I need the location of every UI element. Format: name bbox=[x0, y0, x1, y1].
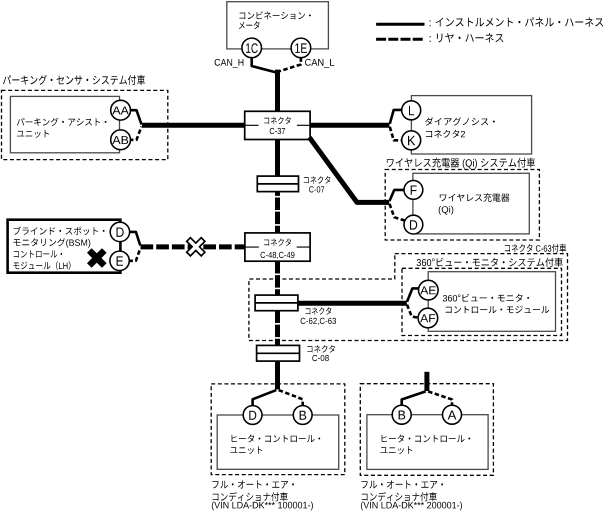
label: wireless charger (Qi) system equipped bbox=[387, 158, 535, 169]
wire: spine solid (C-08 to heater junction) bbox=[275, 361, 280, 390]
wire: pin 1E dashed branch (CAN_L) bbox=[279, 57, 301, 71]
heater control unit box (VIN 200001-) bbox=[367, 415, 488, 470]
heater control unit (VIN 200001-) dashed box bbox=[360, 384, 493, 476]
wire: spine dashed (C-62,C-63 to C-08) bbox=[275, 311, 280, 346]
label: connector C-63 equipped bbox=[505, 244, 566, 253]
pin A (heater control unit R) bbox=[443, 405, 462, 424]
360 view monitor control module box bbox=[428, 272, 555, 332]
wire: parking junction to C-37 left bbox=[142, 123, 245, 128]
connector C-63 equipped dashed region (L-shape) bbox=[249, 254, 568, 341]
caption: full auto air conditioner equipped (VIN 100001-) bbox=[212, 480, 294, 488]
wire: pin D (Qi) dashed branch bbox=[390, 204, 406, 221]
wireless charger (Qi) box bbox=[413, 173, 529, 234]
wire: pin K dashed branch bbox=[390, 127, 402, 141]
wire: pin 1C solid branch (CAN_H) bbox=[252, 57, 276, 72]
heater control unit (VIN 100001-) dashed box bbox=[211, 384, 345, 475]
wire: pin E (BSM) dashed branch bbox=[128, 248, 140, 260]
pin B (heater control unit L) bbox=[293, 406, 312, 425]
wire: heater-R pin B solid branch bbox=[402, 391, 426, 405]
wire: pin L solid branch bbox=[390, 110, 402, 124]
combination meter box U: combination meter bbox=[227, 2, 329, 49]
wire: pin AE solid branch bbox=[407, 288, 419, 301]
pin D (BSM module) bbox=[110, 222, 129, 241]
pin K (diagnosis connector 2) bbox=[402, 131, 421, 150]
parking assist unit box bbox=[10, 96, 119, 152]
wire: C-37 diagonal down to Qi junction bbox=[309, 137, 389, 202]
wire: pin D (BSM) solid branch bbox=[130, 232, 140, 246]
wire: BSM junction dashed to C-48,C-49 bbox=[141, 244, 245, 249]
pin AA (parking assist unit) bbox=[111, 100, 131, 120]
wire: heater-L pin B dashed branch bbox=[279, 390, 303, 406]
X mark on BSM wire (no connection, outlined) bbox=[187, 238, 205, 256]
pin 1E (combination meter, CAN_L) bbox=[291, 38, 311, 58]
pin D (wireless charger) bbox=[404, 215, 423, 234]
wire: pin AA solid branch bbox=[130, 110, 142, 124]
pin E (BSM module) bbox=[110, 251, 129, 270]
connector C-07 symbol bbox=[257, 176, 298, 192]
wire: pin AF dashed branch bbox=[407, 305, 419, 318]
label: 360 view monitor system equipped bbox=[417, 258, 563, 267]
connector C-37 box bbox=[245, 111, 310, 139]
wire: C-62,C-63 to AE/AF junction bbox=[298, 301, 407, 306]
blind spot monitoring (BSM) control module (LH) box bbox=[8, 220, 121, 273]
pin D (heater control unit L) bbox=[243, 406, 262, 425]
wire: spine dashed (C-48,C-49 to C-62,C-63) bbox=[275, 261, 280, 295]
wire: spine dashed (C-07 to C-48,C-49) bbox=[275, 191, 280, 233]
X mark inside BSM box (no connection) bbox=[87, 248, 107, 268]
parking sensor system dashed box bbox=[2, 90, 168, 159]
caption: full auto air conditioner equipped (VIN 200001-) bbox=[362, 480, 444, 488]
pin B (heater control unit R) bbox=[392, 405, 411, 424]
wire: C-37 right to L/K junction bbox=[310, 123, 389, 128]
wire: spine solid (C-37 to C-07) bbox=[275, 139, 280, 176]
legend: instrument panel harness (solid line) bbox=[376, 23, 424, 26]
pin F (wireless charger) bbox=[404, 181, 423, 200]
pin 1C (combination meter, CAN_H) bbox=[242, 38, 262, 58]
heater control unit box (VIN 100001-) bbox=[217, 415, 339, 469]
pin AF (360 view monitor module) bbox=[418, 308, 438, 328]
wireless charger (Qi) system dashed box bbox=[385, 170, 539, 241]
pin L (diagnosis connector 2) bbox=[402, 101, 421, 120]
pin AB (parking assist unit) bbox=[111, 130, 131, 150]
net label CAN_H bbox=[215, 59, 244, 68]
wire: pin F solid branch bbox=[390, 190, 405, 201]
wire: stub above right heater junction bbox=[424, 372, 429, 391]
wire: heater-R pin A dashed branch bbox=[428, 391, 452, 405]
connector C-62,C-63 symbol bbox=[255, 295, 298, 311]
connector C-48,C-49 box bbox=[245, 233, 310, 261]
label: parking sensor system equipped bbox=[3, 75, 145, 85]
360 view monitor system dashed box bbox=[402, 268, 562, 335]
wire: heater-L pin D solid branch bbox=[253, 390, 277, 406]
wire: main spine solid (CAN junction to C-37) bbox=[275, 70, 280, 112]
connector C-08 symbol bbox=[257, 345, 300, 361]
net label CAN_L bbox=[305, 59, 334, 68]
wire: pin AB dashed branch bbox=[129, 127, 142, 140]
diagnosis connector 2 box bbox=[411, 96, 531, 154]
legend: rear harness (dashed line) bbox=[376, 38, 424, 41]
pin AE (360 view monitor module) bbox=[419, 280, 439, 300]
